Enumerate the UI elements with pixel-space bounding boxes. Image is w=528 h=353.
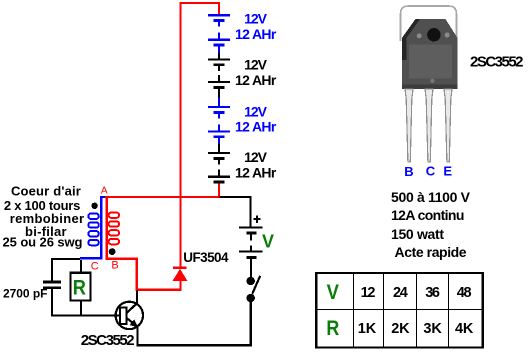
- svg-text:48: 48: [457, 285, 472, 301]
- transistor photo: left rivet: [417, 33, 422, 38]
- coil secondary rail (blue): [80, 198, 103, 260]
- svg-text:2SC3552: 2SC3552: [470, 53, 524, 70]
- transistor Q1 2SC3552: [116, 291, 143, 345]
- transistor photo: right rivet: [445, 33, 450, 38]
- wire: red top rail battery+ to diode column: [179, 2, 220, 267]
- svg-text:V: V: [327, 281, 339, 304]
- polarity dot (top, blue winding): [91, 203, 97, 209]
- svg-text:12V: 12V: [244, 104, 268, 120]
- transistor photo: mounting hole: [427, 28, 440, 41]
- wire: node A horizontal (red part): [105, 196, 220, 198]
- wire: base rail: [51, 314, 120, 316]
- svg-text:500 à 1100 V: 500 à 1100 V: [391, 189, 471, 205]
- svg-text:12: 12: [361, 285, 376, 301]
- switch S1: [247, 276, 261, 346]
- svg-text:2700 pF: 2700 pF: [3, 287, 48, 301]
- meter V (battery style symbol): [239, 226, 262, 277]
- svg-text:12A continu: 12A continu: [391, 207, 464, 223]
- svg-text:24: 24: [393, 285, 408, 301]
- svg-text:12V: 12V: [244, 57, 268, 73]
- capacitor C1 2700pF: [43, 260, 61, 315]
- coil primary winding L1 red loops: [109, 213, 120, 245]
- svg-text:C: C: [426, 164, 436, 179]
- battery B1 12V 12AHr (blue): [208, 14, 230, 53]
- svg-text:B: B: [404, 164, 413, 179]
- svg-text:1K: 1K: [358, 321, 377, 337]
- battery B3 12V 12AHr (blue): [208, 97, 230, 144]
- table V/R grid: [316, 273, 483, 348]
- battery B4 12V 12AHr (black): [208, 144, 230, 183]
- transistor photo: leg B: [405, 89, 413, 162]
- svg-text:Acte rapide: Acte rapide: [395, 244, 467, 260]
- svg-text:C: C: [91, 261, 99, 273]
- svg-text:12 AHr: 12 AHr: [235, 118, 277, 134]
- svg-text:B: B: [111, 260, 118, 272]
- coil secondary winding L2 blue loops: [88, 214, 99, 246]
- svg-text:12V: 12V: [244, 10, 268, 26]
- svg-text:UF3504: UF3504: [183, 250, 229, 265]
- polarity dot (bottom, red winding): [109, 248, 116, 255]
- transistor photo: leg C: [425, 89, 433, 162]
- wire: node A horizontal (black part) to V branch: [220, 196, 252, 227]
- svg-text:E: E: [443, 164, 452, 179]
- svg-text:Coeur d'air: Coeur d'air: [11, 184, 81, 199]
- transistor photo: body: [402, 19, 458, 89]
- wire: bottom rail emitter to switch: [137, 344, 252, 346]
- svg-text:3K: 3K: [423, 321, 442, 337]
- wire: battery- red stub down to node line: [218, 183, 220, 196]
- svg-text:36: 36: [425, 285, 440, 301]
- wire: B branch red down to collector junction: [136, 258, 181, 291]
- polarity + sign: [254, 215, 261, 222]
- transistor photo: leg E: [444, 89, 452, 162]
- svg-text:V: V: [262, 231, 274, 251]
- svg-text:R: R: [326, 317, 339, 340]
- svg-text:4K: 4K: [455, 321, 474, 337]
- battery B2 12V 12AHr (black): [208, 54, 230, 98]
- transistor photo: bottom dimple: [430, 79, 434, 83]
- resistor R1: [71, 260, 91, 315]
- svg-text:A: A: [101, 186, 108, 197]
- svg-text:R: R: [73, 277, 86, 300]
- svg-text:12 AHr: 12 AHr: [235, 72, 277, 88]
- coil primary rail (red): [106, 196, 138, 260]
- wire: C node black to RC network: [51, 258, 80, 260]
- svg-text:25 ou 26 swg: 25 ou 26 swg: [3, 234, 83, 249]
- transistor photo: tab halo outline: [401, 6, 457, 41]
- label Coeur d'air text block: [3, 184, 85, 250]
- diode D1 UF3504: [173, 267, 188, 291]
- svg-text:2K: 2K: [391, 321, 410, 337]
- svg-text:12V: 12V: [244, 149, 268, 165]
- svg-text:2SC3552: 2SC3552: [81, 332, 135, 349]
- wire: node A horizontal blue tip: [100, 196, 105, 198]
- svg-text:12 AHr: 12 AHr: [235, 164, 277, 180]
- svg-text:12 AHr: 12 AHr: [235, 26, 277, 42]
- svg-text:150 watt: 150 watt: [391, 226, 444, 242]
